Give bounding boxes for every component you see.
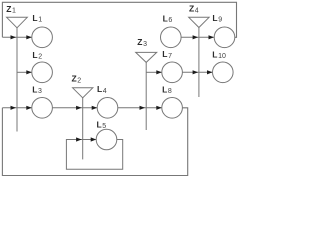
wire L6 output to L9: [181, 36, 214, 38]
wire L4 output to L8: [118, 107, 162, 109]
arrow into Z2 junction row 4: [76, 137, 82, 141]
arrow into L10: [207, 70, 213, 74]
wire feedback loop from L9 output over the top to L1 junction: [2, 2, 236, 37]
arrow into L3: [26, 106, 32, 110]
node L2: [32, 62, 53, 83]
wire feedback into L3 junction (row 3 left): [2, 107, 31, 109]
wire L3 output to L4: [52, 107, 97, 109]
wire L7 output to L10: [182, 71, 212, 73]
arrow into L5: [91, 137, 97, 141]
antenna Z2 triangle: [73, 88, 93, 98]
node L10: [213, 62, 234, 83]
node L6: [161, 27, 182, 48]
arrow into Z1 junction row 3: [11, 106, 17, 110]
arrow into L1: [26, 35, 32, 39]
arrow into Z4 junction row 2: [193, 70, 199, 74]
antenna Z3 triangle: [136, 52, 157, 62]
antenna Z4 feed line: [198, 28, 200, 98]
node L3: [32, 98, 53, 119]
arrow into L7: [156, 70, 162, 74]
node L1: [32, 27, 53, 48]
wire Z3 junction to L7 (row 2): [146, 71, 162, 73]
arrow into L8: [156, 106, 162, 110]
antenna Z1 feed line: [16, 28, 18, 132]
node L5 self-feedback loop wire: [66, 140, 122, 170]
arrow into L2: [26, 70, 32, 74]
wire Z1 junction to L2 (row 2 left): [17, 71, 32, 73]
node L4: [97, 98, 118, 119]
node L8: [162, 98, 183, 119]
arrow into Z3 junction row 3: [140, 106, 146, 110]
node L7: [162, 62, 183, 83]
arrow into Z1 junction row 1: [11, 35, 17, 39]
arrow into Z4 junction row 1: [193, 35, 199, 39]
arrow into L4: [92, 106, 98, 110]
antenna Z4 triangle: [189, 17, 209, 27]
antenna Z3 feed line: [145, 62, 147, 130]
antenna Z1 triangle: [7, 17, 28, 28]
wire feedback into L1 junction (row 1 left): [2, 36, 31, 38]
arrow into Z2 junction row 3: [76, 106, 82, 110]
wire feedback loop from L8 output around the bottom to L3 junction: [2, 108, 187, 176]
node L5: [96, 129, 117, 150]
antenna Z2 feed line: [82, 98, 84, 160]
arrow into L9: [209, 35, 215, 39]
node L9: [214, 27, 235, 48]
